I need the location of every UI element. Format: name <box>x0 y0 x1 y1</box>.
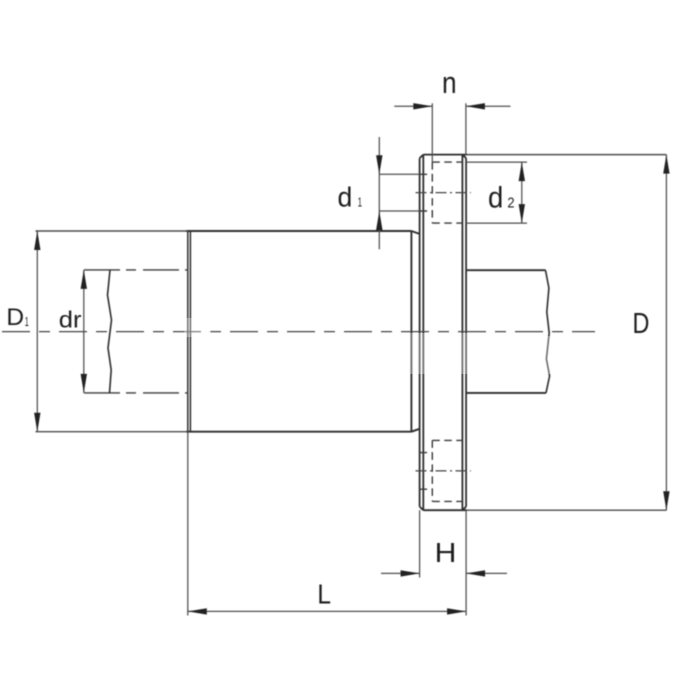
H extension line left <box>419 510 421 577</box>
D1 arrows (inside, outward) <box>34 231 40 250</box>
flange right face double line <box>461 155 463 511</box>
d1 arrows (outside, inward) <box>376 155 382 174</box>
L arrows (inside, outward) <box>188 608 207 614</box>
D dimension line <box>665 155 667 511</box>
svg-text:D: D <box>6 305 24 331</box>
H arrows (outside, inward) <box>401 570 420 576</box>
svg-text:dr: dr <box>59 306 82 332</box>
n extension lines <box>431 103 433 162</box>
bottom hole center line <box>416 470 471 472</box>
body bottom edge <box>186 431 411 433</box>
H/L extension line right <box>465 510 467 615</box>
d2 extension lines <box>466 161 527 163</box>
arrowheads <box>34 103 670 614</box>
D arrows <box>663 155 669 174</box>
nut body outline <box>186 231 420 432</box>
d2 arrows (inside, outward) <box>519 162 525 181</box>
body right chamfer diagonals <box>411 231 419 234</box>
break wavy line right <box>546 270 550 393</box>
flange bottom edge <box>423 509 467 511</box>
bottom bolt hole: counterbore hidden lines <box>420 440 463 501</box>
svg-text:1: 1 <box>358 195 362 209</box>
n arrows (outside, inward) <box>413 103 432 109</box>
svg-text:D: D <box>633 308 650 340</box>
svg-text:2: 2 <box>507 194 514 211</box>
dr arrows <box>81 270 87 289</box>
center axis line <box>2 331 595 333</box>
d1 extension lines <box>379 173 419 175</box>
body top edge <box>186 230 411 232</box>
flange outline <box>420 155 467 511</box>
svg-text:d: d <box>338 182 353 213</box>
svg-text:L: L <box>317 578 331 609</box>
d2 dimension line <box>521 162 523 223</box>
flange top edge <box>423 154 467 156</box>
D1 extension lines (body edges extended left) <box>36 230 188 232</box>
svg-text:H: H <box>435 537 457 568</box>
L extension line left <box>187 432 189 616</box>
screw shaft left (phantom dash-dot, with break) <box>84 270 189 393</box>
D extension lines (flange edges extended right) <box>466 154 666 156</box>
flange chamfer diagonals <box>420 155 424 159</box>
svg-text:n: n <box>442 65 457 100</box>
D1 dimension line <box>36 231 38 432</box>
H dimension line with tails <box>381 572 420 574</box>
break wavy line left <box>108 270 112 393</box>
n dimension line with tails <box>394 105 432 107</box>
flange left face double line <box>419 158 421 506</box>
body left face double line <box>188 231 191 432</box>
L dimension line <box>188 610 466 612</box>
screw shaft right (solid, with break) <box>466 270 549 393</box>
body right chamfer vertical <box>410 231 412 432</box>
svg-text:1: 1 <box>25 315 29 329</box>
top hole center line <box>416 192 471 194</box>
d1 dimension line <box>378 137 380 249</box>
dr dimension line <box>83 270 85 393</box>
svg-text:d: d <box>488 181 503 214</box>
faint watermark lightening <box>184 318 552 374</box>
top bolt hole: counterbore hidden lines <box>420 162 463 223</box>
